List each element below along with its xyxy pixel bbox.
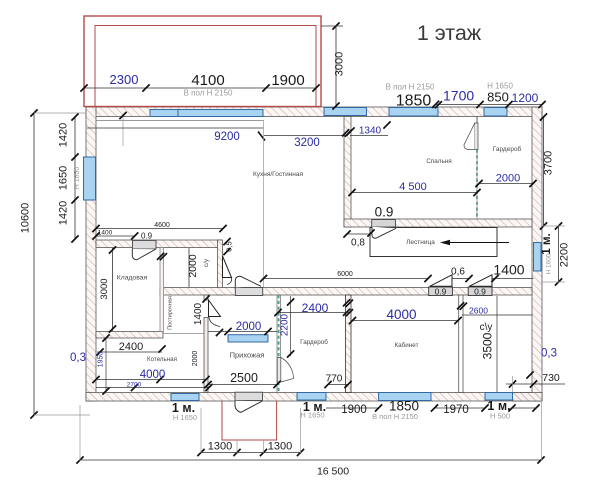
svg-text:2200: 2200 <box>559 243 571 267</box>
room label laundry rotated <box>168 296 174 330</box>
svg-text:1950: 1950 <box>98 352 105 368</box>
dim 9200 <box>87 128 265 143</box>
svg-text:1400: 1400 <box>193 302 204 325</box>
window bottom boiler 1m <box>171 394 199 401</box>
wardrobe2 dashed wall upper <box>277 295 280 393</box>
wall C bedroom/wardrobe dashed lower <box>476 150 478 220</box>
svg-text:1300: 1300 <box>268 441 292 453</box>
title 1 этаж <box>417 21 482 45</box>
interior wall B bedroom bottom <box>344 219 532 227</box>
svg-text:2000: 2000 <box>192 351 199 367</box>
svg-text:Гардероб: Гардероб <box>300 338 328 346</box>
note Н 1650 boiler window <box>173 413 197 422</box>
dim 1420 lower left <box>58 201 70 225</box>
note Н 1600 right rotated <box>546 253 553 274</box>
note Н 500 <box>490 412 510 421</box>
svg-text:850: 850 <box>487 90 509 105</box>
dim 1850 bottom <box>389 399 419 414</box>
dim 2700 small <box>96 382 213 392</box>
label 1m window d <box>487 399 510 413</box>
svg-text:2200: 2200 <box>280 313 291 336</box>
svg-text:Н 500: Н 500 <box>490 412 510 421</box>
note В пол Н 2150 bottom <box>372 412 418 421</box>
svg-text:Кухня/Гостинная: Кухня/Гостинная <box>253 171 304 178</box>
svg-text:3500: 3500 <box>481 332 495 359</box>
top right dim line 1700/850/1200 <box>432 101 546 109</box>
window right wall 1m <box>534 243 542 272</box>
svg-text:730: 730 <box>542 372 560 384</box>
door D2 0.9 box <box>468 287 492 296</box>
window top 1850-left small <box>324 108 367 116</box>
dim 1m right rotated <box>541 233 553 254</box>
stairs box <box>370 228 497 257</box>
svg-text:0.9: 0.9 <box>435 287 447 297</box>
svg-text:Кабинет: Кабинет <box>395 341 419 349</box>
dim 6000 line <box>260 271 534 282</box>
svg-text:0,6: 0,6 <box>451 267 465 278</box>
dim 1340 <box>347 121 390 136</box>
dim 10600 vertical <box>20 109 91 418</box>
svg-text:10600: 10600 <box>20 203 32 234</box>
dim 2300 <box>110 72 139 87</box>
window top 1850 <box>389 108 438 117</box>
door bedroom-wardrobe leaf <box>464 123 478 150</box>
kitchen window sill line <box>96 112 264 146</box>
svg-text:1700: 1700 <box>443 88 474 104</box>
svg-text:16 500: 16 500 <box>317 466 349 478</box>
svg-text:3000: 3000 <box>334 52 346 76</box>
svg-text:1400: 1400 <box>493 262 524 278</box>
svg-text:Н 1600: Н 1600 <box>546 253 553 274</box>
svg-text:0.9: 0.9 <box>474 287 486 297</box>
dim 730 <box>506 371 565 392</box>
outer bottom wall <box>86 393 542 402</box>
svg-text:0.9: 0.9 <box>141 231 153 240</box>
dim 1300 left <box>208 441 232 453</box>
label 1m window b <box>303 400 326 414</box>
svg-text:3200: 3200 <box>294 137 320 149</box>
svg-text:В пол Н 2150: В пол Н 2150 <box>386 83 435 92</box>
dim 2200 right vertical <box>541 222 571 285</box>
door leaf bedroom flap <box>372 227 396 239</box>
dim 1400 small <box>92 230 138 240</box>
svg-text:1650: 1650 <box>58 166 70 190</box>
svg-text:0.9: 0.9 <box>375 205 394 220</box>
dim 0.9 storeroom door <box>141 231 153 240</box>
dim 2400 storeroom <box>96 341 165 356</box>
svg-text:3000: 3000 <box>99 278 110 299</box>
dim 3000 vertical terrace <box>321 22 346 109</box>
interior wall E storeroom bottom <box>96 332 163 339</box>
dim 1900 <box>271 72 304 89</box>
svg-text:В пол Н 2150: В пол Н 2150 <box>184 89 233 98</box>
svg-text:с/у: с/у <box>203 258 210 267</box>
door box kitchen-hall <box>235 288 262 296</box>
svg-text:9200: 9200 <box>214 131 240 143</box>
note В пол Н 2150 top <box>386 83 435 92</box>
svg-text:2000: 2000 <box>187 254 199 278</box>
svg-text:Лестница: Лестница <box>406 239 435 246</box>
window top-left large <box>150 110 263 117</box>
dim 2200 wardrobe2 rotated <box>280 296 295 358</box>
note Н 1650 window b <box>300 411 324 420</box>
svg-text:1200: 1200 <box>512 91 539 105</box>
storeroom right thin wall <box>160 248 164 332</box>
dim 1400 laundry rotated <box>193 295 223 336</box>
svg-text:1400: 1400 <box>98 230 113 237</box>
left dim column line <box>71 113 78 242</box>
svg-text:1900: 1900 <box>341 404 367 416</box>
svg-text:Н 1650: Н 1650 <box>173 413 197 422</box>
outer left wall <box>86 107 96 401</box>
door wardrobe2 leaf <box>277 358 293 383</box>
dim 1970 bottom <box>443 404 469 416</box>
svg-text:4000: 4000 <box>140 369 166 381</box>
note В пол Н 2150 terrace <box>184 89 233 98</box>
window bottom right 1m <box>485 393 513 401</box>
svg-text:с\у: с\у <box>480 322 493 333</box>
extension line x263 <box>263 120 265 287</box>
dim 2000 hallway blue <box>208 321 277 335</box>
svg-text:2400: 2400 <box>119 341 143 353</box>
room label wc rotated <box>203 258 210 267</box>
room label wardrobe1 <box>493 145 522 153</box>
svg-text:Н 1650: Н 1650 <box>74 167 81 190</box>
svg-text:0,5: 0,5 <box>225 241 234 251</box>
door box storeroom 0.9 <box>133 240 157 249</box>
dim 2600 small blue <box>457 302 532 315</box>
dim 1420 upper left <box>58 123 70 147</box>
svg-text:В пол Н 2150: В пол Н 2150 <box>372 412 418 421</box>
dim 1650 left <box>58 166 70 190</box>
svg-text:6000: 6000 <box>337 271 353 278</box>
dim 0,8 stairs <box>343 229 374 248</box>
svg-text:4 500: 4 500 <box>399 181 427 193</box>
porch dim line 1300/1300 <box>197 408 304 456</box>
dim 850 <box>487 90 509 105</box>
interior wall F storeroom top <box>96 240 222 248</box>
window bottom 1m left <box>297 393 326 401</box>
door leaf kitchen-hall flap up <box>235 276 261 287</box>
wall C bedroom/wardrobe dashed upper <box>476 117 478 124</box>
room label wardrobe2 <box>300 338 328 346</box>
window left wall 1650 <box>84 157 96 200</box>
svg-text:1900: 1900 <box>271 72 304 89</box>
cabinet right thin wall <box>459 295 463 393</box>
svg-text:Прихожая: Прихожая <box>230 351 265 360</box>
hallway left thin wall upper <box>204 295 208 300</box>
door D1 label 0.9 <box>435 287 447 297</box>
dim 0.9 bedroom door <box>375 205 394 220</box>
door D1 0.9 box <box>429 287 453 296</box>
door leaf storeroom flap <box>132 249 155 260</box>
dim 3500 rotated <box>481 296 498 392</box>
door leaf porch flap <box>235 401 262 413</box>
svg-text:0,8: 0,8 <box>351 238 365 249</box>
svg-text:4000: 4000 <box>386 307 416 322</box>
interior wall D long middle <box>160 288 532 296</box>
svg-text:4100: 4100 <box>191 72 224 89</box>
svg-text:0,3: 0,3 <box>541 348 557 360</box>
door D1 triangle <box>430 275 452 287</box>
tick storeroom wall <box>157 253 167 261</box>
room label wc2 <box>480 322 493 333</box>
window hallway inner 2000 <box>228 335 268 342</box>
svg-text:2600: 2600 <box>469 306 488 316</box>
dim 3700 vertical <box>540 113 555 229</box>
room label hallway <box>230 351 265 360</box>
room label storeroom <box>117 275 148 282</box>
dim 2000 wc vertical <box>187 248 199 287</box>
label 1m boiler window <box>172 401 195 415</box>
svg-text:1300: 1300 <box>208 441 232 453</box>
note Н 1650 top <box>487 82 513 91</box>
svg-text:1420: 1420 <box>58 123 70 147</box>
svg-text:3700: 3700 <box>543 151 555 175</box>
note Н 1650 left rotated <box>74 167 81 190</box>
door D2 label 0.9 <box>474 287 486 297</box>
dim 3200 <box>264 129 352 149</box>
door wc leaf <box>223 256 232 285</box>
svg-text:2400: 2400 <box>302 301 329 315</box>
dim 4500 bedroom <box>348 181 480 196</box>
dim 770 <box>324 374 351 389</box>
svg-text:1 м.: 1 м. <box>541 233 553 254</box>
tick cabinet wall <box>343 299 353 307</box>
dim 1200 <box>512 91 539 105</box>
svg-text:Гардероб: Гардероб <box>493 145 522 153</box>
room label kitchen <box>253 171 304 178</box>
dim 4000 cabinet <box>349 307 462 324</box>
dim 2500 hallway <box>204 371 280 388</box>
corner hatch bottom-right <box>513 393 543 402</box>
hallway left thin wall lower <box>204 318 208 393</box>
svg-text:770: 770 <box>326 374 343 385</box>
terrace outer red rect <box>84 16 321 107</box>
window bottom 1850 <box>379 393 431 401</box>
door box porch <box>235 392 263 400</box>
door D2 triangle <box>469 275 492 287</box>
bottom dim line segments <box>326 404 540 411</box>
svg-text:Котельная: Котельная <box>147 356 177 363</box>
porch red rect <box>222 401 277 440</box>
dim 1950 rotated small <box>98 334 110 394</box>
window top 850 <box>484 108 507 117</box>
svg-text:1420: 1420 <box>58 201 70 225</box>
dim 16500 line <box>76 402 544 478</box>
dim 0,5 rotated <box>223 238 233 255</box>
door laundry leaf <box>209 300 221 327</box>
svg-text:2500: 2500 <box>230 371 258 385</box>
svg-text:1340: 1340 <box>359 126 382 137</box>
dim 2400 wardrobe2 <box>274 301 353 316</box>
outer right wall <box>532 107 542 401</box>
room label stairs <box>406 239 435 246</box>
dim 4000 boiler <box>92 369 209 383</box>
interior wall wc right <box>218 240 223 295</box>
wardrobe2 dashed wall lower <box>278 382 280 393</box>
dim 1300 right <box>268 441 292 453</box>
room label bedroom <box>426 158 451 165</box>
door box bedroom 0.9 <box>372 220 396 228</box>
svg-text:2000: 2000 <box>496 173 520 185</box>
cabinet left wall <box>346 295 352 393</box>
dim 3000 storeroom vertical <box>99 246 116 332</box>
dim 0,3 left <box>70 352 86 364</box>
svg-text:Спальня: Спальня <box>426 158 451 165</box>
room label boiler <box>147 356 177 363</box>
svg-text:2000: 2000 <box>236 321 262 333</box>
svg-text:1970: 1970 <box>443 404 469 416</box>
dim 4100 <box>191 72 224 89</box>
svg-text:0,3: 0,3 <box>70 352 86 364</box>
dim 2000 wardrobe1 <box>475 173 536 188</box>
svg-text:Кладовая: Кладовая <box>117 275 148 282</box>
dim 1850 top <box>396 93 432 110</box>
terrace dim line 2300/4100/1900 <box>80 84 319 91</box>
dim 4600 small <box>92 222 226 232</box>
dim 1900 bottom <box>341 404 367 416</box>
svg-text:2300: 2300 <box>110 72 139 87</box>
interior wall A kitchen/bedroom <box>344 117 351 228</box>
dim 0,3 right <box>541 348 557 360</box>
dim 0,6 <box>451 267 465 278</box>
stairs arrow <box>440 240 509 245</box>
svg-text:1 этаж: 1 этаж <box>417 21 482 45</box>
svg-text:4600: 4600 <box>154 222 170 229</box>
dim 1700 <box>443 88 474 104</box>
room label cabinet <box>395 341 419 349</box>
outer top wall <box>86 107 542 117</box>
svg-text:2700: 2700 <box>127 382 142 389</box>
svg-text:1850: 1850 <box>396 93 432 110</box>
dim 1400 big <box>493 262 524 278</box>
dim 2000 hall-left rotated small <box>192 351 199 367</box>
laundry bottom thin line <box>163 333 204 335</box>
svg-text:Н 1650: Н 1650 <box>300 411 324 420</box>
svg-text:Постирочная: Постирочная <box>168 296 174 330</box>
terrace inner red rect <box>95 26 316 107</box>
